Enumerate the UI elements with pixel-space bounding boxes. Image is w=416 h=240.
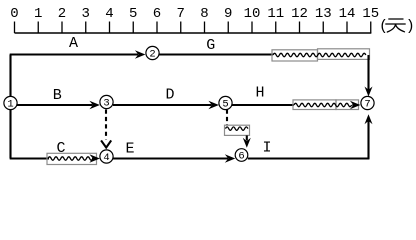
time scale numbers 0-15 [10,6,379,22]
node 3 [100,95,113,109]
activity C start line [10,157,49,159]
node 4 [100,150,113,164]
activity H line from node5 [232,104,294,106]
svg-text:1: 1 [34,6,42,22]
svg-text:14: 14 [339,6,356,22]
activity D arrow (node3 to node5) [113,101,219,109]
free float wavy line above node6 [226,127,248,130]
svg-text:): ) [406,18,415,35]
svg-text:0: 0 [10,6,18,22]
svg-text:3: 3 [103,98,109,110]
activity A arrow (row1 to node 2) [10,50,146,58]
node 7 [361,96,374,110]
float box H left [293,100,336,110]
free float wavy line G [273,53,366,56]
float box G right [318,49,370,60]
svg-text:11: 11 [267,6,284,22]
svg-text:6: 6 [153,6,161,22]
node 1 [4,96,17,110]
svg-text:3: 3 [82,6,90,22]
time scale tick marks [15,22,371,34]
svg-text:4: 4 [103,152,109,164]
activity B arrow (node1 to node3) [11,101,100,109]
svg-text:A: A [69,35,78,52]
wire G corner down into node 7 [365,55,373,97]
svg-text:15: 15 [362,6,379,22]
node 6 [235,149,248,163]
svg-text:C: C [56,140,65,157]
svg-text:8: 8 [200,6,208,22]
float box H right [336,100,359,110]
svg-text:(: ( [379,18,388,35]
node 2 [146,46,159,60]
svg-text:E: E [125,141,134,158]
svg-text:D: D [165,87,174,104]
svg-text:6: 6 [238,151,244,163]
svg-text:13: 13 [315,6,332,22]
activity E arrow (node4 to node6) [113,154,235,162]
free float wavy line C with arrow into node 4 [48,154,100,162]
float box between node5 and node6 [225,125,250,135]
float box G left [272,50,318,61]
svg-text:7: 7 [177,6,185,22]
svg-text:H: H [255,85,264,102]
svg-text:B: B [53,87,62,104]
svg-text:1: 1 [7,99,13,111]
svg-text:10: 10 [244,6,261,22]
svg-text:I: I [262,140,271,157]
connector node5 to node6: dashed drop [226,110,228,126]
svg-text:7: 7 [364,99,370,111]
svg-text:4: 4 [105,6,113,22]
activity G line from node 2 [158,53,273,55]
svg-text:G: G [206,37,215,54]
svg-text:2: 2 [58,6,66,22]
activity I arrow (node6 right then up into node 7) [248,114,373,159]
dummy arrow node3 to node4 (dashed) [102,110,111,148]
wire down into node 6 [243,135,251,147]
free float wavy line H with arrow into node 7 [294,101,360,109]
wire left vertical from row1 through node 1 to row4 [9,55,11,159]
svg-text:5: 5 [222,99,228,111]
svg-text:12: 12 [291,6,308,22]
svg-text:2: 2 [149,49,155,61]
svg-text:9: 9 [224,6,232,22]
float box C [47,153,97,164]
svg-text:5: 5 [129,6,137,22]
node 5 [219,96,232,110]
time scale ruler line [15,32,372,34]
unit label (tian = days) [379,18,415,35]
